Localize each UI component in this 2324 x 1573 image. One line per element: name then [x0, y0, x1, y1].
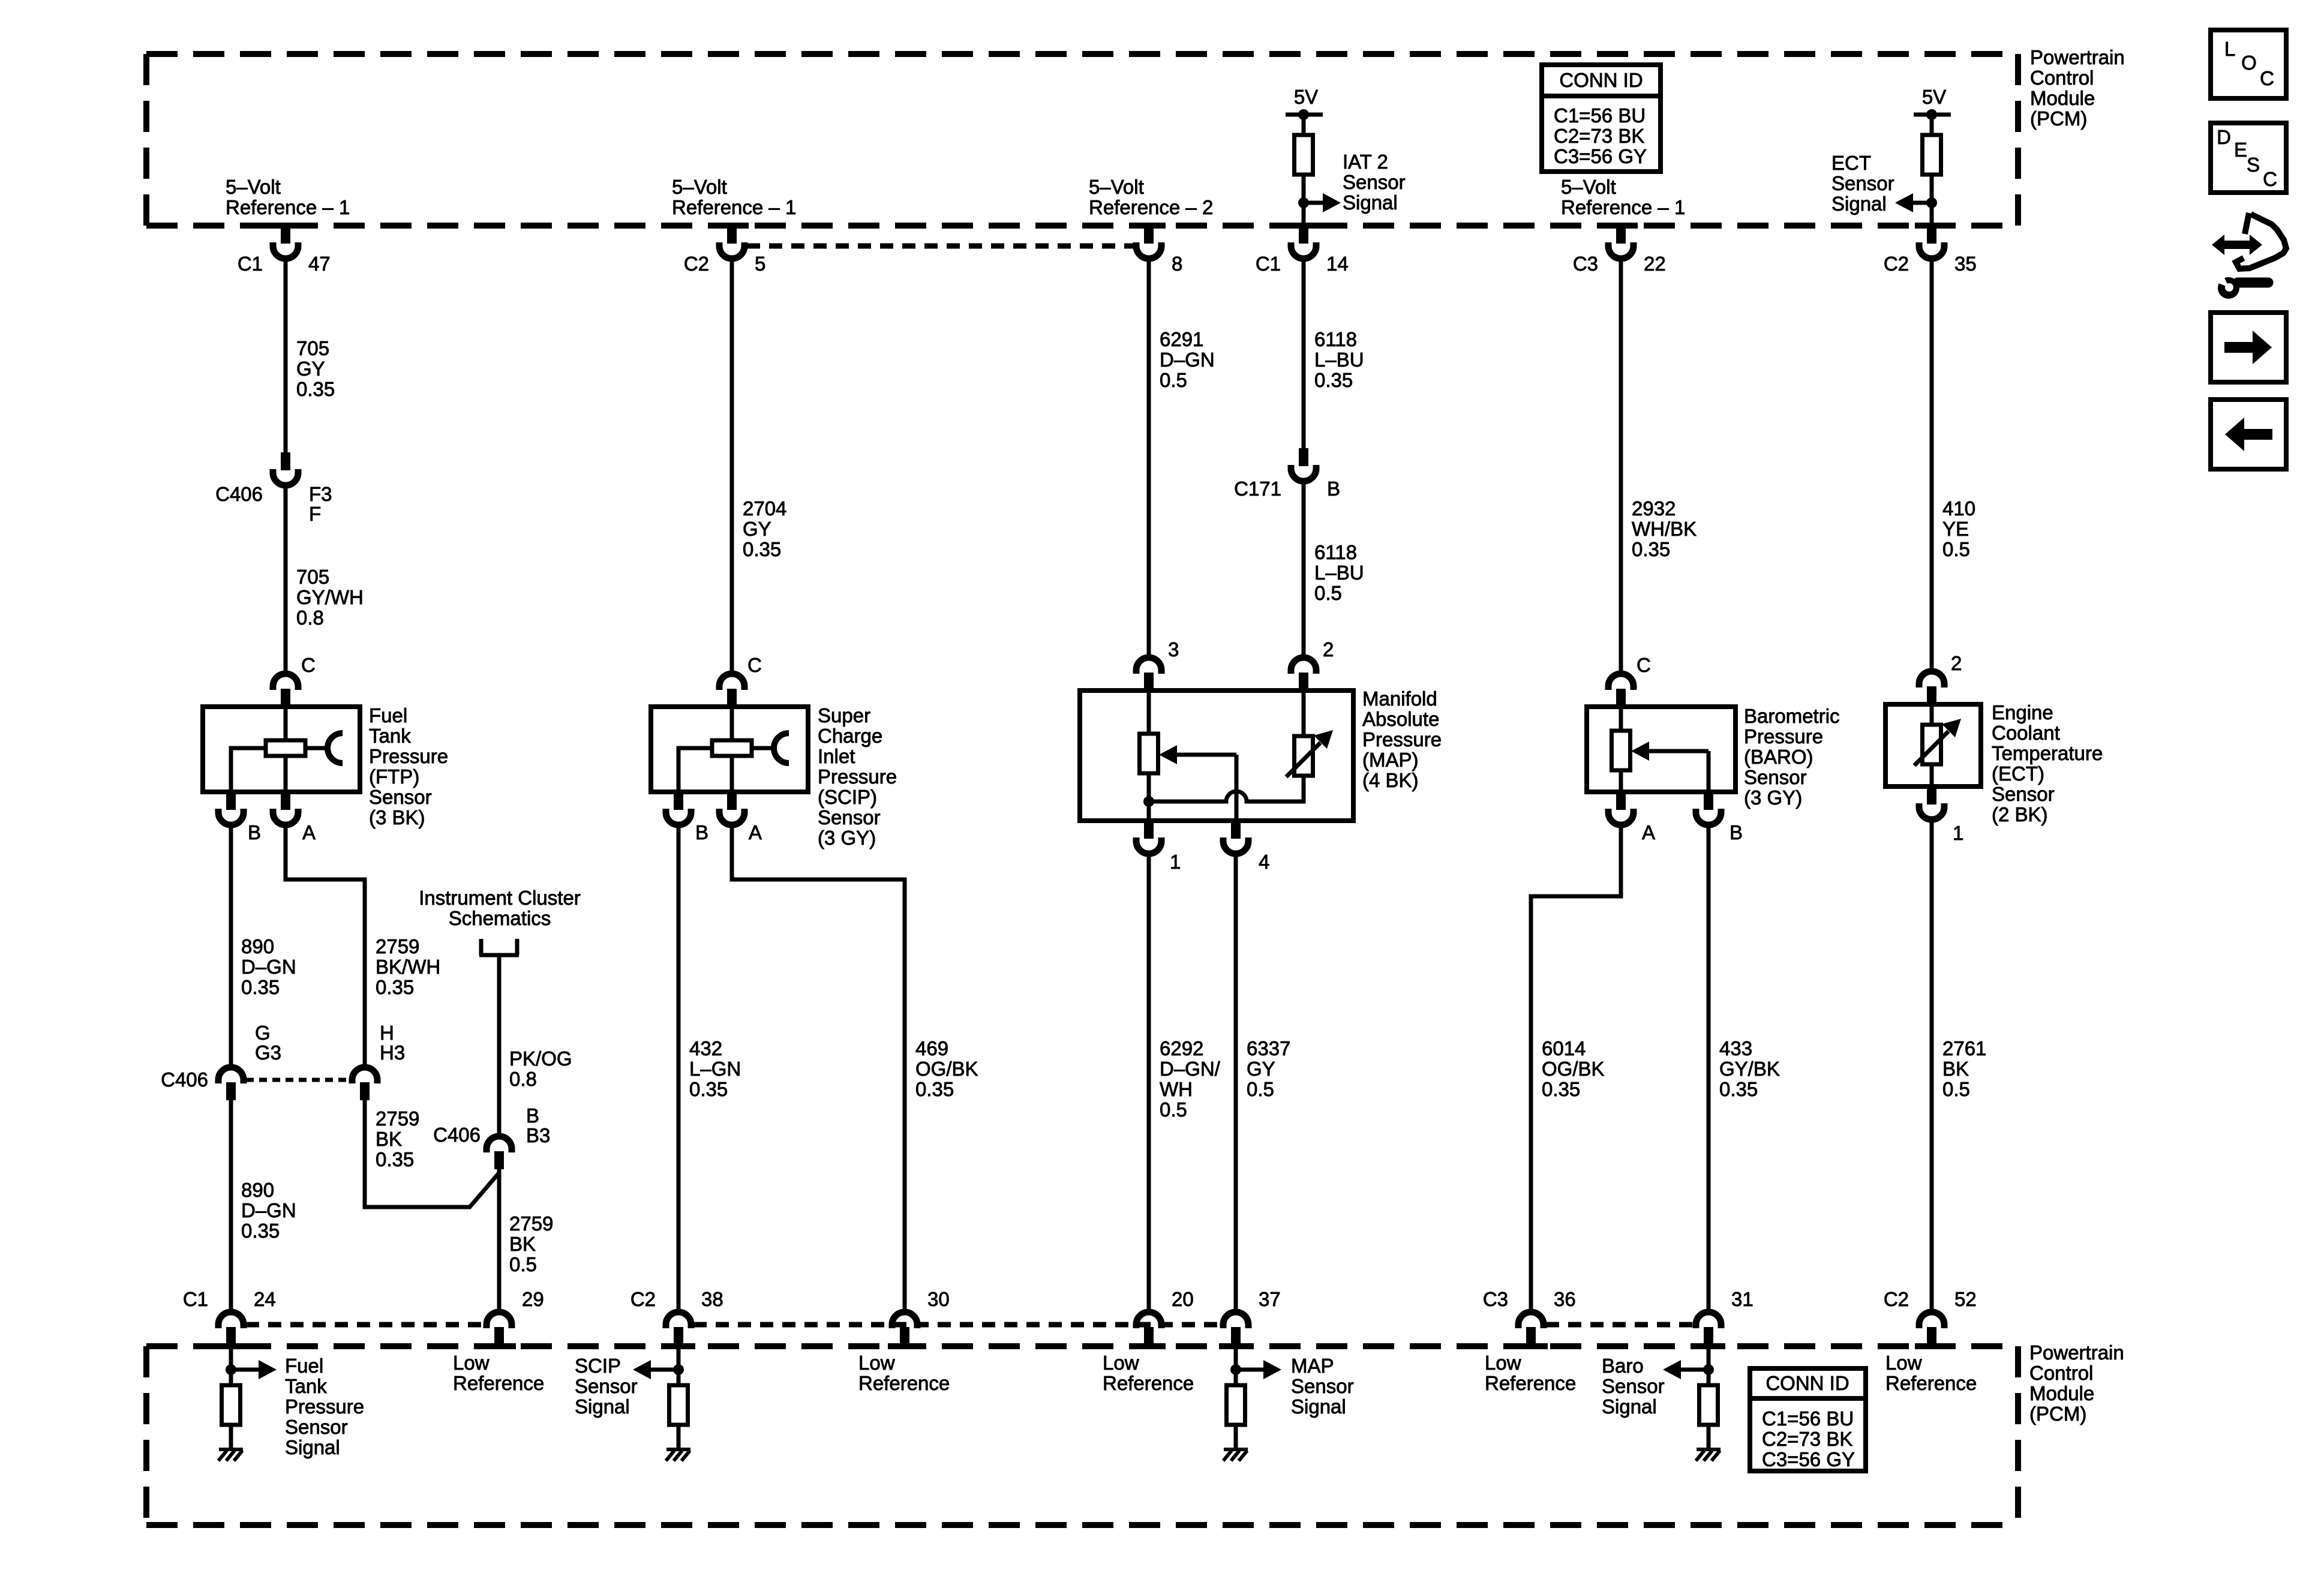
svg-text:1: 1 [1953, 822, 1963, 844]
svg-text:5V: 5V [1922, 86, 1946, 108]
svg-text:Charge: Charge [818, 725, 882, 747]
svg-text:0.5: 0.5 [1942, 1078, 1970, 1100]
svg-text:F: F [309, 503, 321, 525]
svg-text:Reference: Reference [1485, 1372, 1576, 1394]
svg-text:Module: Module [2029, 1382, 2094, 1404]
svg-text:5–Volt: 5–Volt [1561, 176, 1616, 198]
wire 6118 L-BU 0.5 [1302, 482, 1306, 656]
svg-text:C406: C406 [161, 1068, 208, 1091]
wire PK/OG 0.8 [497, 955, 502, 1135]
svg-text:0.35: 0.35 [743, 538, 781, 560]
svg-text:GY/WH: GY/WH [296, 586, 364, 608]
svg-text:52: 52 [1954, 1288, 1977, 1310]
svg-text:MAP: MAP [1291, 1355, 1334, 1377]
svg-text:Pressure: Pressure [818, 766, 897, 788]
SCIP internal resistor [730, 707, 734, 740]
svg-text:6292: 6292 [1160, 1037, 1203, 1059]
svg-text:G: G [255, 1022, 271, 1044]
svg-text:Sensor: Sensor [369, 786, 432, 808]
svg-text:C3=56 GY: C3=56 GY [1554, 145, 1647, 167]
connector C406 pin G3 [218, 1067, 244, 1083]
node MAP sensor signal [1230, 1364, 1241, 1375]
connector C1 pin 47 [281, 224, 290, 244]
connector BARO pin C [1608, 674, 1634, 690]
svg-text:GY: GY [296, 358, 325, 380]
svg-text:Pressure: Pressure [285, 1395, 364, 1418]
svg-text:Baro: Baro [1602, 1355, 1644, 1377]
wire 890 D-GN 0.35 upper [229, 826, 233, 1066]
svg-text:(2 BK): (2 BK) [1992, 803, 2048, 825]
icon arrow right box [2211, 313, 2286, 382]
svg-text:L–BU: L–BU [1314, 562, 1364, 584]
svg-text:Pressure: Pressure [369, 745, 448, 767]
FTP pressure port symbol [305, 746, 328, 751]
wire 432 L-GN 0.35 [677, 826, 681, 1311]
svg-text:A: A [1642, 821, 1655, 843]
svg-text:GY: GY [1247, 1058, 1275, 1080]
wire 2759 BK 0.5 [497, 1169, 502, 1311]
svg-text:Sensor: Sensor [1343, 171, 1406, 193]
wire 6118 L-BU 0.35 [1302, 260, 1306, 448]
PCM internal resistor (Baro) [1700, 1385, 1718, 1425]
svg-text:GY/BK: GY/BK [1719, 1058, 1780, 1080]
svg-text:Fuel: Fuel [285, 1355, 323, 1377]
svg-text:Coolant: Coolant [1992, 722, 2060, 744]
svg-text:Temperature: Temperature [1992, 742, 2103, 764]
svg-text:(ECT): (ECT) [1992, 763, 2044, 785]
svg-text:Absolute: Absolute [1362, 708, 1439, 730]
svg-text:Sensor: Sensor [1291, 1375, 1354, 1397]
svg-text:Reference – 1: Reference – 1 [1561, 196, 1685, 218]
svg-text:24: 24 [254, 1288, 276, 1310]
connector C3 pin 36 [1518, 1312, 1544, 1328]
svg-text:(BARO): (BARO) [1744, 746, 1813, 768]
sensor MAP box [1080, 691, 1353, 821]
arrow SCIP Sensor Signal [651, 1368, 678, 1372]
connector ECT pin 1 [1927, 786, 1936, 804]
connector FTP pin A [281, 792, 290, 810]
svg-text:0.5: 0.5 [1247, 1078, 1274, 1100]
connector pin 20 [1136, 1312, 1161, 1328]
svg-text:(3 GY): (3 GY) [1744, 786, 1802, 809]
svg-text:B: B [1730, 821, 1743, 843]
wire 2759 BK 0.35 [365, 1100, 499, 1207]
svg-text:2932: 2932 [1632, 497, 1676, 520]
arrow ECT Sensor Signal [1913, 201, 1932, 205]
svg-text:C: C [747, 654, 762, 676]
svg-text:C1: C1 [1256, 253, 1281, 275]
svg-text:C: C [1637, 654, 1651, 676]
node fuel tank pressure sensor signal [226, 1364, 236, 1375]
svg-text:0.8: 0.8 [296, 607, 324, 629]
svg-text:Sensor: Sensor [1602, 1375, 1665, 1397]
svg-text:Low: Low [453, 1352, 490, 1374]
PCM internal resistor (SCIP) [669, 1385, 688, 1425]
svg-text:4: 4 [1259, 851, 1269, 873]
ground (SCIP internal) [666, 1448, 690, 1451]
svg-text:S: S [2247, 154, 2260, 176]
connector C406 pin F3 [281, 452, 290, 470]
connector BARO pin B [1704, 792, 1713, 810]
connector C1 pin 14 [1299, 224, 1308, 244]
ground (MAP internal) [1224, 1448, 1248, 1451]
svg-text:C1: C1 [238, 253, 263, 275]
svg-text:Reference – 2: Reference – 2 [1089, 196, 1213, 218]
svg-text:38: 38 [701, 1288, 723, 1310]
ECT thermistor [1930, 704, 1934, 725]
svg-text:Module: Module [2030, 87, 2095, 109]
svg-text:C: C [301, 654, 316, 676]
svg-text:0.5: 0.5 [1942, 538, 1970, 560]
svg-text:BK: BK [376, 1128, 402, 1150]
arrow Baro Sensor Signal [1681, 1368, 1709, 1372]
node SCIP sensor signal [673, 1364, 684, 1375]
wire 2932 WH/BK 0.35 [1619, 260, 1623, 673]
sensor SCIP box [651, 707, 808, 792]
connector pin 37 [1223, 1312, 1248, 1328]
svg-text:C2: C2 [630, 1288, 656, 1310]
svg-text:Reference – 1: Reference – 1 [672, 196, 796, 218]
svg-text:GY: GY [743, 518, 771, 540]
icon DESC box [2211, 123, 2286, 193]
BARO wiper arrow [1631, 742, 1649, 761]
svg-text:Reference: Reference [453, 1372, 544, 1394]
arrow Fuel Tank Pressure Sensor Signal [231, 1368, 259, 1372]
svg-text:0.35: 0.35 [296, 378, 335, 400]
wire 469 OG/BK 0.35 [732, 826, 905, 1311]
ECT thermistor arrow [1914, 731, 1948, 766]
svg-text:D–GN: D–GN [241, 1199, 296, 1221]
svg-text:D–GN: D–GN [241, 956, 296, 978]
connector FTP pin C [273, 674, 298, 690]
svg-text:6291: 6291 [1160, 328, 1203, 350]
svg-text:Pressure: Pressure [1362, 728, 1442, 751]
svg-text:CONN ID: CONN ID [1765, 1372, 1849, 1394]
svg-text:C171: C171 [1234, 478, 1281, 500]
svg-text:Sensor: Sensor [575, 1375, 638, 1397]
svg-text:C2=73 BK: C2=73 BK [1762, 1428, 1852, 1450]
svg-text:B: B [1327, 478, 1340, 500]
svg-text:Instrument Cluster: Instrument Cluster [419, 887, 581, 909]
svg-text:BK: BK [509, 1233, 536, 1255]
connector C2 pin 52 [1919, 1312, 1944, 1328]
svg-text:705: 705 [296, 337, 329, 359]
svg-text:C2: C2 [1884, 1288, 1909, 1310]
arrow MAP Sensor Signal [1236, 1368, 1263, 1372]
connector MAP pin 4 [1231, 821, 1241, 839]
PCM pull-up resistor (ECT) [1930, 115, 1934, 135]
svg-text:C2: C2 [1884, 253, 1909, 275]
svg-text:B3: B3 [526, 1124, 550, 1146]
table CONN ID bottom [1750, 1368, 1866, 1471]
svg-text:Pressure: Pressure [1744, 725, 1823, 748]
ground (FTP internal) [219, 1448, 243, 1451]
wire 705 GY/WH 0.8 [284, 487, 288, 673]
svg-text:G3: G3 [255, 1041, 281, 1064]
svg-text:ECT: ECT [1831, 152, 1871, 174]
svg-text:(MAP): (MAP) [1362, 749, 1419, 771]
svg-text:Signal: Signal [575, 1395, 630, 1418]
svg-text:890: 890 [241, 935, 274, 957]
svg-text:0.35: 0.35 [376, 976, 414, 998]
wire 6292 D-GN/WH 0.5 [1147, 855, 1151, 1311]
MAP internal wire with hop [1149, 776, 1304, 801]
icon vehicle with wrench [2212, 235, 2262, 255]
svg-text:Signal: Signal [1291, 1395, 1346, 1418]
table CONN ID top [1542, 65, 1661, 172]
svg-text:31: 31 [1731, 1288, 1753, 1310]
svg-text:(SCIP): (SCIP) [818, 786, 877, 808]
svg-text:L: L [2224, 38, 2235, 60]
svg-text:2: 2 [1951, 652, 1962, 674]
svg-text:2704: 2704 [743, 497, 786, 520]
svg-text:890: 890 [241, 1179, 274, 1201]
svg-text:6014: 6014 [1542, 1037, 1586, 1059]
svg-text:D–GN/: D–GN/ [1160, 1058, 1221, 1080]
sensor FTP box [203, 707, 360, 792]
svg-text:0.35: 0.35 [1542, 1078, 1580, 1100]
wire 410 YE 0.5 [1930, 260, 1934, 670]
svg-text:Reference: Reference [1885, 1372, 1977, 1394]
svg-text:0.35: 0.35 [1719, 1078, 1758, 1100]
svg-text:Signal: Signal [1343, 191, 1398, 214]
svg-text:Control: Control [2029, 1362, 2093, 1384]
svg-text:14: 14 [1326, 253, 1349, 275]
SCIP internal wire to pin B [678, 748, 712, 792]
FTP internal wire to pin B [231, 748, 266, 792]
svg-text:0.35: 0.35 [689, 1078, 728, 1100]
svg-text:Low: Low [858, 1352, 895, 1374]
svg-text:Powertrain: Powertrain [2029, 1341, 2124, 1364]
svg-text:OG/BK: OG/BK [915, 1058, 978, 1080]
dashed connector tie 38-37 [693, 1322, 1221, 1328]
svg-text:47: 47 [308, 253, 331, 275]
svg-text:0.5: 0.5 [1160, 1098, 1187, 1121]
svg-text:C2: C2 [684, 253, 709, 275]
svg-text:Super: Super [818, 704, 870, 727]
svg-text:0.8: 0.8 [509, 1068, 537, 1090]
PCM internal resistor (MAP) [1227, 1385, 1245, 1425]
dashed connector tie G3-H3 [246, 1078, 350, 1082]
svg-text:PK/OG: PK/OG [509, 1047, 572, 1070]
svg-text:C3: C3 [1483, 1288, 1508, 1310]
svg-text:0.35: 0.35 [241, 976, 280, 998]
svg-text:B: B [248, 821, 261, 843]
connector FTP pin B [226, 792, 236, 810]
svg-text:20: 20 [1172, 1288, 1194, 1310]
connector SCIP pin A [727, 792, 737, 810]
svg-text:Low: Low [1485, 1352, 1521, 1374]
svg-text:5–Volt: 5–Volt [672, 176, 727, 198]
svg-text:Control: Control [2030, 67, 2094, 89]
connector C3 pin 22 [1616, 224, 1626, 244]
dashed connector tie 5-8 [747, 244, 1134, 249]
svg-text:2759: 2759 [376, 1107, 419, 1130]
connector pin 29 [487, 1312, 512, 1328]
svg-text:Fuel: Fuel [369, 704, 407, 727]
svg-text:Sensor: Sensor [818, 806, 881, 828]
svg-text:2: 2 [1323, 638, 1334, 661]
svg-text:A: A [749, 821, 762, 843]
svg-text:Sensor: Sensor [1744, 766, 1807, 788]
svg-text:Manifold: Manifold [1362, 688, 1437, 710]
svg-text:C1: C1 [183, 1288, 208, 1310]
svg-text:C: C [2260, 67, 2274, 89]
svg-text:YE: YE [1942, 518, 1969, 540]
svg-text:WH: WH [1160, 1078, 1193, 1100]
svg-text:(FTP): (FTP) [369, 766, 419, 788]
svg-text:E: E [2234, 139, 2247, 161]
connector MAP pin 2 [1291, 658, 1316, 674]
svg-text:(PCM): (PCM) [2029, 1403, 2086, 1425]
svg-text:5–Volt: 5–Volt [1089, 176, 1144, 198]
MAP potentiometer [1147, 691, 1151, 734]
svg-text:Powertrain: Powertrain [2030, 46, 2125, 68]
svg-text:433: 433 [1719, 1037, 1752, 1059]
svg-text:Inlet: Inlet [818, 745, 855, 767]
ground (Baro internal) [1697, 1448, 1721, 1451]
connector pin 31 [1696, 1312, 1721, 1328]
svg-text:(3 GY): (3 GY) [818, 827, 876, 849]
svg-text:C1=56 BU: C1=56 BU [1762, 1407, 1854, 1430]
svg-text:CONN ID: CONN ID [1559, 69, 1643, 91]
svg-text:36: 36 [1554, 1288, 1576, 1310]
MAP variable resistor [1302, 691, 1306, 737]
svg-text:3: 3 [1168, 638, 1179, 661]
svg-text:0.5: 0.5 [1160, 369, 1187, 391]
MAP junction node [1143, 796, 1154, 807]
dashed connector tie 24-29 [246, 1322, 484, 1328]
svg-text:(4 BK): (4 BK) [1362, 769, 1419, 791]
connector pin 8 [1144, 224, 1154, 244]
svg-text:O: O [2241, 52, 2257, 74]
svg-text:469: 469 [915, 1037, 948, 1059]
off-page connector to instrument cluster [479, 953, 519, 957]
svg-text:C3=56 GY: C3=56 GY [1762, 1448, 1855, 1470]
connector BARO pin A [1616, 792, 1626, 810]
connector MAP pin 3 [1136, 658, 1161, 674]
svg-text:B: B [526, 1104, 539, 1127]
icon arrow left box [2211, 400, 2286, 469]
svg-text:410: 410 [1942, 497, 1975, 520]
svg-text:0.35: 0.35 [241, 1220, 280, 1242]
svg-text:BK: BK [1942, 1058, 1969, 1080]
arrow IAT 2 Sensor Signal [1304, 201, 1323, 205]
node Baro sensor signal [1703, 1364, 1714, 1375]
MAP wiper arrow [1159, 745, 1177, 764]
connector C171 pin B [1299, 448, 1308, 466]
svg-text:705: 705 [296, 566, 329, 588]
svg-text:5V: 5V [1294, 86, 1318, 108]
svg-text:Sensor: Sensor [285, 1416, 348, 1438]
svg-text:C406: C406 [215, 483, 263, 505]
svg-text:22: 22 [1644, 253, 1666, 275]
svg-text:B: B [695, 821, 708, 843]
svg-text:Reference – 1: Reference – 1 [226, 196, 350, 218]
svg-text:A: A [302, 821, 316, 843]
connector MAP pin 1 [1144, 821, 1154, 839]
svg-text:0.35: 0.35 [915, 1078, 954, 1100]
svg-text:Signal: Signal [1831, 193, 1887, 215]
svg-text:Tank: Tank [369, 725, 411, 747]
svg-text:IAT 2: IAT 2 [1343, 151, 1388, 173]
svg-text:(3 BK): (3 BK) [369, 806, 425, 828]
svg-text:SCIP: SCIP [575, 1355, 621, 1377]
svg-text:C2=73 BK: C2=73 BK [1554, 125, 1644, 147]
svg-text:432: 432 [689, 1037, 722, 1059]
svg-text:BK/WH: BK/WH [376, 956, 440, 978]
svg-text:L–GN: L–GN [689, 1058, 741, 1080]
connector C406 pin B3 [487, 1136, 512, 1152]
svg-text:H: H [380, 1022, 394, 1044]
svg-text:D: D [2217, 126, 2231, 148]
svg-text:Reference: Reference [1103, 1372, 1194, 1394]
wire 705 GY 0.35 [284, 260, 288, 452]
svg-text:F3: F3 [309, 483, 332, 505]
wire 2704 GY 0.35 [730, 260, 734, 673]
svg-text:0.35: 0.35 [1314, 369, 1353, 391]
sensor ECT box [1885, 704, 1981, 786]
svg-text:0.35: 0.35 [1632, 538, 1670, 560]
wire 890 D-GN 0.35 lower [229, 1100, 233, 1311]
svg-text:29: 29 [522, 1288, 544, 1310]
svg-text:5: 5 [755, 253, 765, 275]
node ECT sensor signal [1926, 197, 1937, 208]
wire 6337 GY 0.5 [1234, 855, 1238, 1311]
svg-text:8: 8 [1172, 253, 1182, 275]
svg-text:Engine: Engine [1992, 701, 2053, 724]
svg-text:2759: 2759 [376, 935, 419, 957]
svg-text:C1=56 BU: C1=56 BU [1554, 104, 1646, 127]
connector C2 pin 35 [1927, 224, 1936, 244]
wire 6014 OG/BK 0.35 [1531, 826, 1621, 1311]
connector C2 pin 5 [727, 224, 737, 244]
PCM internal resistor (FTP) [222, 1385, 241, 1425]
svg-text:30: 30 [927, 1288, 950, 1310]
dashed connector tie 36-31 [1546, 1322, 1694, 1328]
svg-text:Low: Low [1885, 1352, 1922, 1374]
svg-text:0.35: 0.35 [376, 1148, 414, 1170]
svg-text:2761: 2761 [1942, 1037, 1986, 1059]
wire 433 GY/BK 0.35 [1707, 826, 1711, 1311]
PCM pull-up resistor (IAT 2) [1302, 115, 1306, 135]
svg-text:6118: 6118 [1314, 541, 1357, 563]
icon LOC box [2211, 30, 2286, 98]
connector ECT pin 2 [1919, 671, 1944, 688]
svg-text:Barometric: Barometric [1744, 705, 1840, 727]
svg-text:Schematics: Schematics [449, 907, 551, 929]
sensor BARO box [1587, 707, 1736, 792]
MAP variable resistor arrow [1286, 743, 1320, 777]
svg-text:0.5: 0.5 [1314, 582, 1342, 604]
connector C1 pin 24 [218, 1312, 244, 1328]
wire 2761 BK 0.5 [1930, 821, 1934, 1311]
svg-text:WH/BK: WH/BK [1632, 518, 1697, 540]
svg-text:1: 1 [1170, 851, 1181, 873]
FTP internal resistor [284, 707, 288, 740]
connector SCIP pin B [674, 792, 683, 810]
svg-text:C406: C406 [433, 1124, 481, 1146]
svg-text:37: 37 [1259, 1288, 1281, 1310]
connector C406 pin H3 [352, 1067, 377, 1083]
connector C2 pin 38 [666, 1312, 691, 1328]
connector SCIP pin C [719, 674, 744, 690]
BARO potentiometer [1619, 707, 1623, 731]
connector pin 30 [892, 1312, 917, 1328]
svg-text:6337: 6337 [1247, 1037, 1290, 1059]
svg-text:Tank: Tank [285, 1375, 327, 1397]
svg-text:D–GN: D–GN [1160, 349, 1215, 371]
